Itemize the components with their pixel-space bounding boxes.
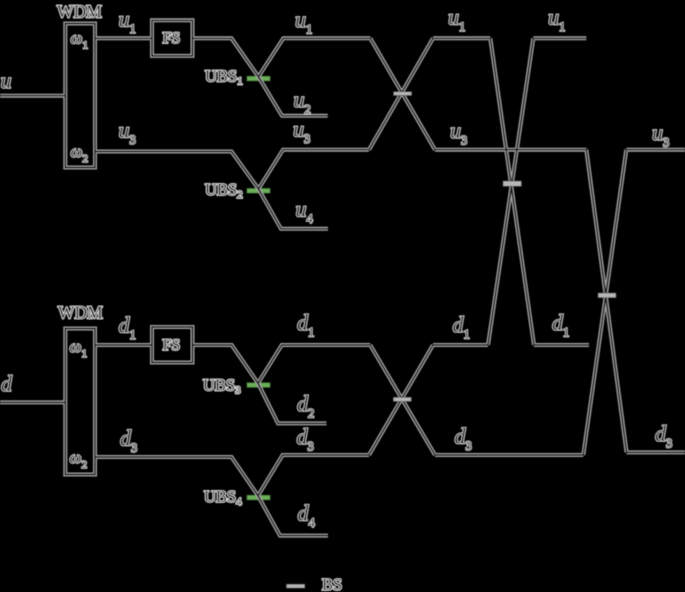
svg-text:FS: FS: [163, 30, 181, 47]
svg-text:UBS2: UBS2: [205, 180, 243, 201]
svg-text:WDM: WDM: [58, 303, 103, 323]
svg-text:WDM: WDM: [57, 2, 102, 22]
svg-text:UBS1: UBS1: [205, 67, 243, 88]
svg-text:FS: FS: [163, 337, 181, 354]
svg-text:d: d: [1, 371, 13, 396]
svg-text:BS: BS: [322, 575, 342, 592]
svg-text:u: u: [1, 68, 12, 93]
